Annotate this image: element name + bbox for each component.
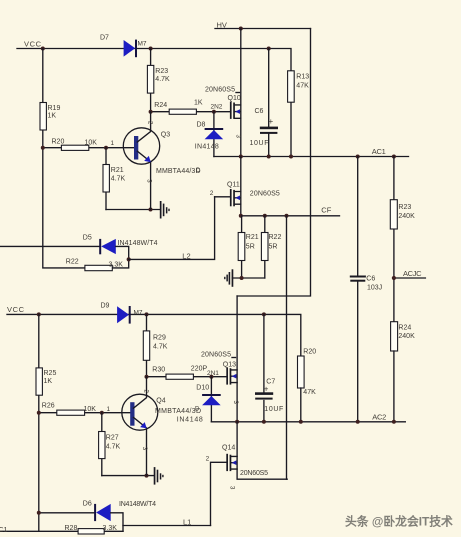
svg-text:D: D bbox=[195, 407, 200, 413]
svg-text:10UF: 10UF bbox=[264, 406, 283, 413]
diode D9 bbox=[101, 302, 143, 323]
svg-text:240K: 240K bbox=[398, 213, 415, 220]
wire D5 to L2 bend bbox=[112, 246, 128, 268]
resistor R30 bbox=[152, 366, 207, 380]
wire Q11 drain bbox=[240, 157, 242, 192]
svg-text:20N60S5: 20N60S5 bbox=[240, 470, 268, 477]
capacitor C6 10UF bbox=[250, 49, 279, 157]
svg-text:4.7K: 4.7K bbox=[153, 343, 168, 350]
svg-text:Q3: Q3 bbox=[161, 131, 170, 138]
wire Q14 drain bbox=[236, 422, 238, 457]
junction AC1/R13 bbox=[289, 155, 293, 159]
svg-text:Q14: Q14 bbox=[222, 444, 235, 451]
svg-text:3.3K: 3.3K bbox=[109, 261, 124, 268]
wire ground row Q3 bbox=[106, 209, 160, 211]
resistor R24 bbox=[154, 99, 203, 114]
svg-text:R20: R20 bbox=[303, 348, 316, 355]
junction D9 cathode bbox=[145, 312, 149, 316]
resistor R23 240K bbox=[390, 200, 415, 229]
svg-text:HV: HV bbox=[217, 20, 227, 29]
svg-text:1: 1 bbox=[107, 406, 111, 413]
wire C6 103J column bbox=[357, 157, 359, 422]
wire R24 240K bottom bbox=[393, 351, 395, 422]
mosfet Q10 bbox=[205, 86, 241, 119]
svg-text:5R: 5R bbox=[269, 243, 278, 250]
junction AC2/Q13 source bbox=[235, 420, 239, 424]
wire ACJC stub bbox=[394, 277, 426, 279]
transistor Q4 bbox=[122, 377, 203, 476]
svg-text:R19: R19 bbox=[48, 105, 61, 112]
ground Q11 sources bbox=[224, 269, 233, 287]
wire Q10 source bbox=[240, 118, 242, 156]
svg-text:4.7K: 4.7K bbox=[106, 443, 121, 450]
diode D7 bbox=[100, 35, 147, 58]
junction AC1/C6 103J column bbox=[356, 155, 360, 159]
svg-text:R30: R30 bbox=[152, 366, 165, 373]
svg-text:3: 3 bbox=[235, 135, 241, 139]
svg-text:1: 1 bbox=[111, 140, 115, 147]
svg-text:C1: C1 bbox=[0, 527, 8, 534]
svg-text:M7: M7 bbox=[138, 40, 147, 47]
wire R20 bottom bbox=[300, 388, 302, 422]
resistor R23 4.7K bbox=[147, 65, 170, 93]
svg-text:10K: 10K bbox=[85, 140, 98, 147]
svg-text:IN4148W/T4: IN4148W/T4 bbox=[119, 501, 156, 508]
junction C6 top bbox=[267, 47, 271, 51]
wire ground row Q11 bbox=[232, 277, 264, 279]
junction R29/R30/Q4 collector bbox=[145, 375, 149, 379]
svg-text:R23: R23 bbox=[155, 68, 168, 75]
svg-text:2: 2 bbox=[142, 390, 148, 394]
junction C7 top bbox=[262, 312, 266, 316]
wire R30 row / Q13 gate bbox=[147, 376, 227, 378]
junction Q10 drain/HV bbox=[239, 27, 243, 31]
svg-text:IN4148: IN4148 bbox=[195, 143, 219, 150]
svg-text:3.3K: 3.3K bbox=[103, 525, 118, 532]
resistor R20 47K bbox=[298, 348, 317, 396]
junction AC1/C6 bbox=[267, 155, 271, 159]
svg-text:R26: R26 bbox=[42, 402, 55, 409]
resistor R20 bbox=[52, 139, 98, 151]
wire R24 row / Q10 gate bbox=[151, 111, 230, 113]
mosfet Q11 bbox=[227, 181, 280, 206]
wire R23 column bbox=[150, 49, 152, 112]
wire bottom row bbox=[0, 530, 123, 532]
svg-text:R28: R28 bbox=[65, 525, 78, 532]
junction AC2/R20 bbox=[299, 420, 303, 424]
wire L1 to Q14 gate bbox=[123, 525, 211, 527]
wire left column bottom half bbox=[38, 314, 40, 531]
mosfet Q13 bbox=[201, 351, 237, 384]
junction AC2/C7 bbox=[262, 420, 266, 424]
junction D7 cathode bbox=[149, 47, 153, 51]
svg-text:220P: 220P bbox=[191, 366, 208, 373]
svg-text:Q4: Q4 bbox=[156, 397, 165, 404]
svg-text:R23: R23 bbox=[398, 204, 411, 211]
svg-text:1K: 1K bbox=[48, 113, 57, 120]
diode D10 bbox=[196, 384, 220, 405]
svg-text:1K: 1K bbox=[44, 378, 53, 385]
svg-text:2N1: 2N1 bbox=[207, 370, 219, 377]
svg-text:+: + bbox=[269, 117, 274, 126]
wire D10 column bbox=[210, 377, 212, 422]
junction R20/R21 bbox=[104, 146, 108, 150]
junction AC1/R23 240K column bbox=[392, 155, 396, 159]
svg-text:1K: 1K bbox=[194, 99, 203, 106]
svg-text:47K: 47K bbox=[296, 82, 309, 89]
wire Q13 source bbox=[236, 383, 238, 422]
wire L1 row left bbox=[39, 512, 95, 514]
junction D8 top bbox=[212, 110, 216, 114]
junction L1 row left bbox=[37, 511, 41, 515]
svg-text:20N60S5: 20N60S5 bbox=[250, 190, 280, 197]
resistor R27 4.7K bbox=[99, 432, 121, 459]
svg-text:2N2: 2N2 bbox=[211, 103, 223, 110]
svg-text:R22: R22 bbox=[66, 258, 79, 265]
svg-text:103J: 103J bbox=[367, 284, 382, 291]
svg-text:2: 2 bbox=[206, 455, 210, 462]
junction AC2/C6 103J bbox=[356, 420, 360, 424]
svg-text:VCC: VCC bbox=[24, 40, 42, 49]
svg-text:M7: M7 bbox=[134, 310, 143, 317]
resistor R22 3.3K bbox=[66, 258, 123, 270]
svg-text:D10: D10 bbox=[196, 384, 209, 391]
svg-text:20N60S5: 20N60S5 bbox=[201, 351, 231, 358]
svg-text:C6: C6 bbox=[255, 108, 264, 115]
svg-text:AC2: AC2 bbox=[372, 412, 386, 421]
wire D8 column bbox=[213, 112, 215, 157]
resistor R21 5R bbox=[238, 233, 259, 261]
wire R21 5R column bbox=[241, 216, 243, 278]
capacitor C7 10UF bbox=[255, 314, 283, 421]
svg-text:2: 2 bbox=[147, 121, 153, 125]
resistor R21 4.7K bbox=[103, 165, 126, 193]
wire left column top half bbox=[43, 49, 85, 268]
svg-text:R21: R21 bbox=[246, 234, 259, 241]
svg-text:+: + bbox=[264, 384, 269, 393]
svg-text:20N60S5: 20N60S5 bbox=[205, 86, 235, 93]
junction AC2/R24 240K bbox=[392, 420, 396, 424]
junction CF/Q11 source bbox=[239, 214, 243, 218]
junction R26/R27 bbox=[100, 411, 104, 415]
svg-text:VCC: VCC bbox=[7, 305, 25, 314]
junction CF/R22 5R bbox=[263, 214, 267, 218]
ground Q3 bbox=[160, 201, 170, 219]
svg-text:IN4148: IN4148 bbox=[177, 416, 203, 423]
svg-text:2: 2 bbox=[210, 190, 214, 197]
resistor R26 bbox=[42, 402, 96, 415]
svg-text:头条 @卧龙会IT技术: 头条 @卧龙会IT技术 bbox=[345, 515, 453, 529]
junction VCC2/R25 bbox=[37, 312, 41, 316]
wire R29 column bbox=[146, 314, 148, 376]
svg-text:Q10: Q10 bbox=[228, 95, 241, 102]
diode D5 bbox=[83, 234, 158, 254]
wire HV rail bbox=[215, 28, 311, 30]
svg-text:CF: CF bbox=[321, 205, 331, 214]
resistor R28 3.3K bbox=[65, 525, 118, 534]
svg-text:240K: 240K bbox=[398, 333, 415, 340]
wire ground row Q4 bbox=[102, 475, 154, 477]
wire VCC rail top bbox=[17, 49, 291, 71]
svg-text:C6: C6 bbox=[366, 275, 375, 282]
resistor R24 240K bbox=[391, 322, 415, 351]
svg-text:4.7K: 4.7K bbox=[155, 76, 170, 83]
wire AC2 line bbox=[211, 421, 405, 423]
wire Q11 gate bbox=[215, 196, 230, 198]
wire Q14 gate bbox=[211, 462, 227, 525]
junction CF/descender bbox=[285, 214, 289, 218]
svg-text:D7: D7 bbox=[100, 35, 109, 42]
svg-text:R21: R21 bbox=[111, 167, 124, 174]
svg-text:D9: D9 bbox=[101, 302, 110, 309]
junction VCC/R19 bbox=[41, 47, 45, 51]
wire R20 row bbox=[43, 147, 134, 149]
junction AC1/Q10 source bbox=[239, 155, 243, 159]
svg-text:10K: 10K bbox=[84, 406, 97, 413]
junction R21 5R bottom bbox=[240, 276, 244, 280]
junction R23/R24/Q3 collector bbox=[149, 110, 153, 114]
svg-text:R20: R20 bbox=[52, 139, 65, 146]
svg-text:AC1: AC1 bbox=[372, 147, 386, 156]
resistor R13 47K bbox=[288, 71, 310, 157]
junction Q3 emitter/ground bbox=[149, 208, 153, 212]
transistor Q3 bbox=[123, 112, 200, 210]
wire R21 column bbox=[105, 148, 107, 210]
svg-text:D8: D8 bbox=[197, 121, 206, 128]
junction L2 bbox=[127, 257, 131, 261]
svg-text:10UF: 10UF bbox=[250, 140, 269, 147]
svg-text:ACJC: ACJC bbox=[403, 269, 422, 278]
wire CF line bbox=[241, 215, 340, 217]
junction R25/R26 bbox=[37, 411, 41, 415]
diode D6 bbox=[83, 500, 156, 521]
svg-text:R29: R29 bbox=[153, 334, 166, 341]
wire R27 column bbox=[101, 413, 103, 476]
wire L2 row left bbox=[0, 245, 99, 247]
svg-text:D: D bbox=[196, 168, 201, 174]
diode D8 bbox=[195, 121, 223, 150]
svg-text:R24: R24 bbox=[398, 324, 411, 331]
wire CF descender bbox=[286, 216, 288, 479]
svg-text:R27: R27 bbox=[106, 434, 119, 441]
mosfet Q14 bbox=[222, 444, 268, 477]
junction ACJC bbox=[392, 276, 396, 280]
wire D6 to L1 bend bbox=[111, 513, 123, 532]
wire R26 row bbox=[39, 412, 130, 414]
resistor R29 4.7K bbox=[143, 331, 167, 360]
wire Q14 source to CF descender bbox=[237, 469, 287, 479]
svg-text:Q13: Q13 bbox=[223, 361, 236, 368]
junction Q4 emitter/ground bbox=[145, 474, 149, 478]
svg-text:47K: 47K bbox=[303, 389, 316, 396]
capacitor C6 103J bbox=[350, 275, 382, 291]
svg-text:R13: R13 bbox=[296, 73, 309, 80]
wire Q11 source bbox=[240, 204, 242, 216]
svg-text:R25: R25 bbox=[44, 370, 57, 377]
wire R22 5R column bbox=[264, 216, 266, 278]
wire HV descender right bbox=[237, 29, 310, 297]
ground Q4 bbox=[154, 467, 164, 485]
svg-text:5R: 5R bbox=[246, 243, 255, 250]
wire L2 to Q11 gate bbox=[129, 197, 215, 260]
svg-text:L2: L2 bbox=[182, 251, 190, 260]
wire AC1 line bbox=[214, 156, 409, 158]
svg-text:D5: D5 bbox=[83, 234, 92, 241]
svg-text:D6: D6 bbox=[83, 500, 92, 507]
wire Q13 drain branch bbox=[236, 296, 238, 370]
wire VCC rail bottom bbox=[7, 314, 301, 356]
resistor R22 5R bbox=[261, 233, 281, 261]
resistor R25 bbox=[36, 368, 56, 395]
resistor R19 bbox=[40, 103, 60, 131]
svg-text:MMBTA44/3D: MMBTA44/3D bbox=[156, 168, 201, 175]
svg-text:Q11: Q11 bbox=[227, 181, 240, 188]
wire Q10 drain bbox=[240, 29, 242, 105]
svg-text:R24: R24 bbox=[154, 102, 167, 109]
junction R19/R20 bbox=[41, 146, 45, 150]
wire R23 240K column bbox=[393, 157, 395, 322]
svg-text:3: 3 bbox=[229, 486, 235, 490]
svg-text:4.7K: 4.7K bbox=[111, 175, 126, 182]
junction D10 top bbox=[209, 375, 213, 379]
svg-text:L1: L1 bbox=[183, 517, 191, 526]
svg-text:R22: R22 bbox=[269, 234, 282, 241]
